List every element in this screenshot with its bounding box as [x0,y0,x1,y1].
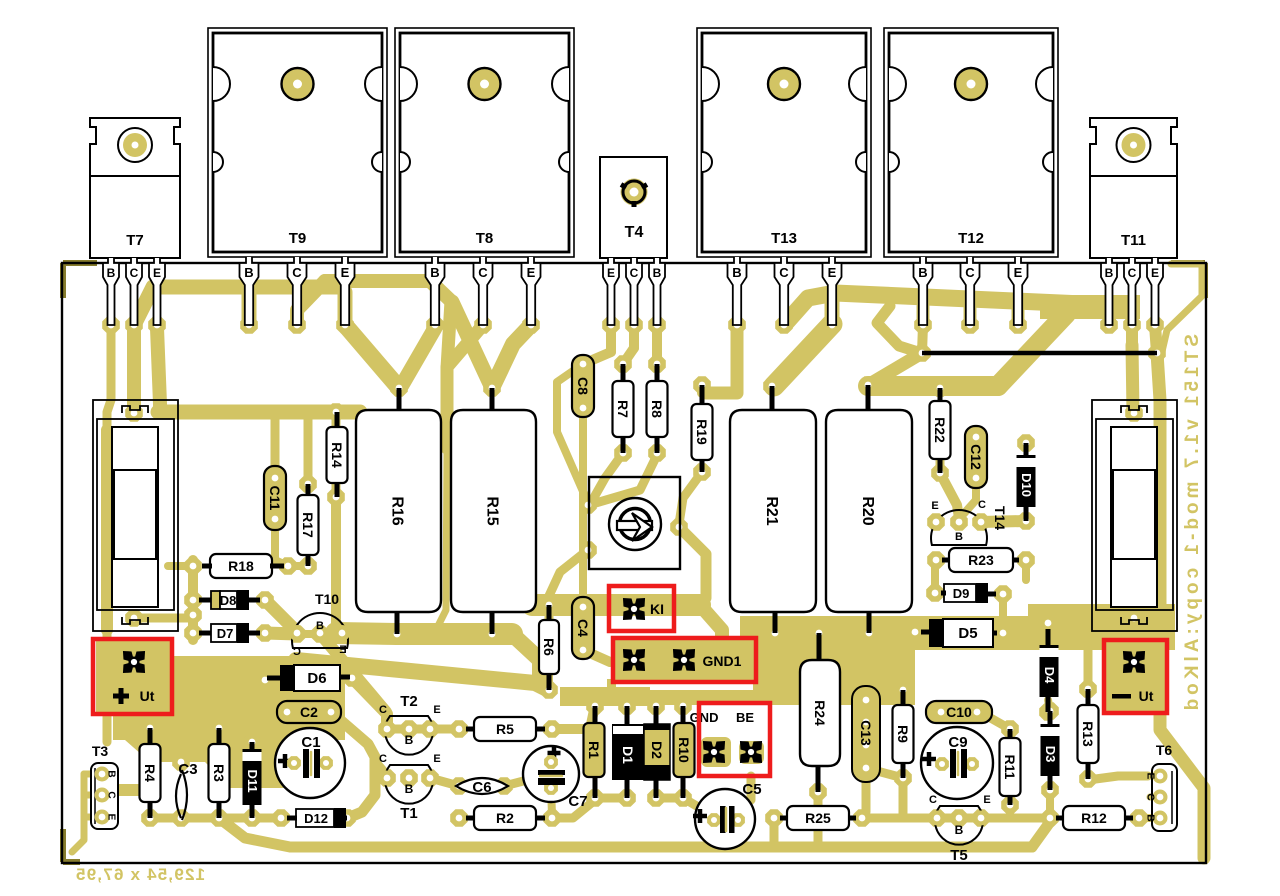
svg-text:D5: D5 [958,625,977,642]
svg-text:R5: R5 [496,721,514,737]
svg-text:T1: T1 [400,805,418,822]
svg-text:R11: R11 [1002,755,1018,780]
svg-text:B: B [405,782,414,796]
svg-text:D12: D12 [304,811,328,826]
svg-text:T14: T14 [992,506,1008,530]
svg-text:C: C [630,266,639,280]
svg-text:C: C [478,265,488,280]
svg-text:D6: D6 [307,670,326,687]
svg-text:E: E [828,265,837,280]
svg-text:Ɔ: Ɔ [293,646,301,658]
svg-text:C: C [106,791,117,798]
svg-text:B: B [732,265,741,280]
svg-text:E: E [153,266,161,280]
svg-text:R14: R14 [329,442,345,468]
svg-text:T5: T5 [950,847,968,864]
svg-text:C: C [379,753,387,765]
svg-text:D9: D9 [953,586,970,601]
svg-text:E: E [106,814,117,821]
svg-text:KI: KI [650,601,664,617]
svg-text:B: B [955,531,963,543]
svg-text:R4: R4 [142,764,158,782]
svg-text:129,54 x 67,95: 129,54 x 67,95 [75,865,205,884]
svg-text:C13: C13 [858,720,874,746]
svg-text:GND: GND [690,710,719,725]
svg-text:B: B [955,823,964,837]
svg-text:C8: C8 [575,377,591,395]
svg-text:C: C [379,704,387,716]
svg-text:T12: T12 [958,230,984,247]
svg-text:R19: R19 [694,419,710,445]
svg-text:C: C [1128,266,1137,280]
svg-text:ST151 v1.7 mod-1 copy:AlKod: ST151 v1.7 mod-1 copy:AlKod [1182,334,1203,714]
svg-text:D3: D3 [1043,746,1058,763]
svg-text:E: E [1145,773,1156,780]
svg-text:R12: R12 [1081,810,1107,826]
svg-text:B: B [106,770,117,777]
svg-text:R21: R21 [763,496,780,525]
svg-text:R24: R24 [812,700,828,726]
svg-text:R25: R25 [805,810,831,826]
svg-text:E: E [433,704,440,716]
svg-text:D7: D7 [217,626,234,641]
svg-text:T7: T7 [126,232,144,249]
svg-text:C12: C12 [968,444,984,470]
svg-text:B: B [316,620,324,632]
svg-text:C3: C3 [178,761,197,778]
svg-text:T10: T10 [315,591,339,607]
svg-text:B: B [405,733,414,747]
svg-text:E: E [1151,266,1159,280]
svg-text:R8: R8 [649,400,665,418]
svg-text:Ǝ: Ǝ [339,644,346,656]
svg-text:B: B [107,266,116,280]
svg-text:R23: R23 [968,552,994,568]
svg-text:B: B [1145,814,1156,821]
svg-text:B: B [430,265,439,280]
svg-text:T13: T13 [771,230,797,247]
svg-text:C2: C2 [300,704,318,720]
svg-text:B: B [653,266,662,280]
svg-text:C9: C9 [948,734,967,751]
svg-text:R20: R20 [859,496,876,525]
svg-text:C6: C6 [472,779,491,796]
svg-text:R13: R13 [1080,721,1096,747]
svg-text:T6: T6 [1156,742,1173,758]
svg-text:T3: T3 [92,743,109,759]
svg-text:R15: R15 [484,496,501,525]
svg-text:T9: T9 [289,230,307,247]
svg-text:B: B [244,265,253,280]
svg-text:D10: D10 [1019,473,1034,497]
svg-text:D1: D1 [620,746,636,764]
svg-text:E: E [931,500,938,512]
svg-text:D2: D2 [649,741,665,759]
svg-text:D4: D4 [1042,667,1057,684]
svg-text:C: C [978,499,986,511]
svg-text:T8: T8 [476,230,494,247]
svg-text:E: E [607,266,615,280]
svg-text:C7: C7 [568,793,587,810]
svg-text:D8: D8 [220,593,237,608]
svg-text:Ut: Ut [1139,688,1154,704]
svg-text:R22: R22 [932,417,948,443]
svg-text:E: E [527,265,536,280]
svg-text:E: E [433,753,440,765]
svg-text:R2: R2 [496,810,514,826]
svg-text:C: C [779,265,789,280]
svg-text:C: C [965,265,975,280]
svg-text:Ut: Ut [140,688,155,704]
svg-text:E: E [983,794,990,806]
svg-text:T11: T11 [1121,232,1146,249]
svg-text:R1: R1 [586,741,602,759]
svg-text:C1: C1 [301,734,320,751]
svg-text:C5: C5 [742,781,761,798]
svg-text:C: C [292,265,302,280]
svg-text:R18: R18 [228,558,254,574]
svg-text:BE: BE [736,710,754,725]
svg-text:R9: R9 [895,725,911,743]
svg-text:R3: R3 [211,764,227,782]
svg-text:B: B [918,265,927,280]
svg-text:R17: R17 [300,512,316,538]
svg-text:T4: T4 [625,224,644,241]
svg-text:C: C [929,794,937,806]
svg-text:E: E [1014,265,1023,280]
svg-text:E: E [341,265,350,280]
svg-text:C4: C4 [575,619,591,637]
svg-text:C: C [1145,793,1156,800]
svg-text:R10: R10 [676,737,692,763]
svg-text:T2: T2 [400,693,418,710]
svg-text:B: B [1105,266,1114,280]
svg-text:R6: R6 [541,638,557,656]
svg-text:R16: R16 [389,496,406,525]
svg-text:C11: C11 [267,486,283,511]
svg-text:GND1: GND1 [703,653,742,669]
svg-text:D11: D11 [245,769,260,792]
svg-text:C: C [130,266,139,280]
svg-text:C10: C10 [946,704,972,720]
svg-text:R7: R7 [615,400,631,418]
